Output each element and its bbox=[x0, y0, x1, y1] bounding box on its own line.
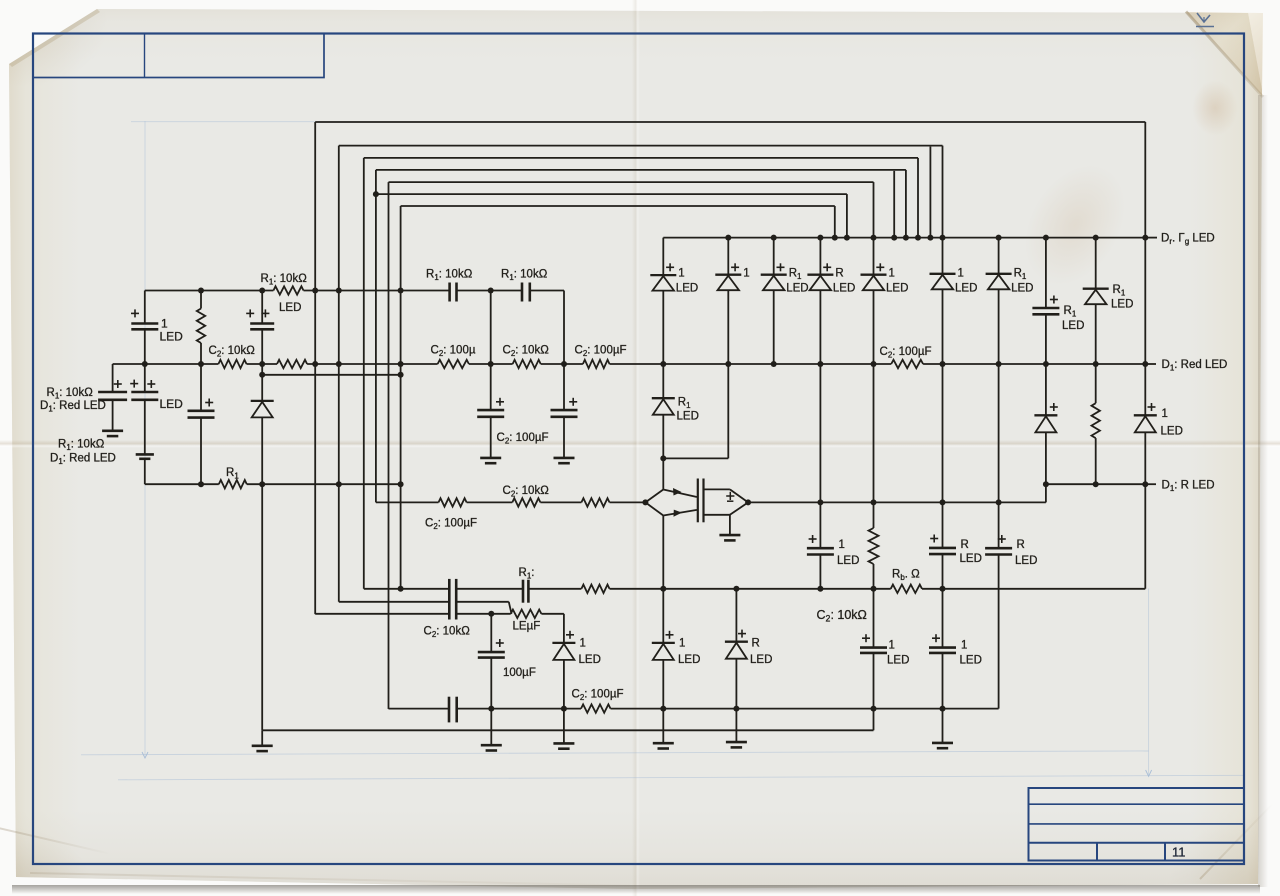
svg-text:R1: 10kΩ: R1: 10kΩ bbox=[58, 439, 105, 453]
node bus-column 663 (bus corner) bbox=[662, 237, 664, 239]
label LED (cap cluster) bbox=[160, 397, 184, 411]
wire column RR (row2 to diode) bbox=[1144, 364, 1146, 415]
ground (col 491 lower) bbox=[481, 745, 502, 750]
node column 1096 / row484 bbox=[1093, 481, 1099, 487]
wire column 1096 (diode to row2) bbox=[1095, 304, 1097, 364]
ground (column D) bbox=[252, 746, 273, 751]
wire column 1046 (bus to cap) bbox=[1045, 238, 1047, 308]
node column 728 / row2 bbox=[725, 361, 731, 367]
node column D / row4 bbox=[259, 481, 265, 487]
resistor R1 (row4) bbox=[219, 480, 247, 488]
capacitor R1 10k (row1 mid2) bbox=[522, 283, 530, 302]
node bus / column 998 bbox=[996, 235, 1002, 241]
wire row708 left bbox=[389, 708, 450, 710]
wire column D (row1 to cap) bbox=[261, 291, 263, 324]
label C2: 100uF (row2 right) bbox=[880, 346, 932, 360]
wire loop2 top horizontal bbox=[364, 157, 918, 159]
wire row2 mid to col663 bbox=[610, 363, 664, 365]
construction guide vertical left bbox=[144, 121, 146, 755]
label C2: 10k (right block) bbox=[817, 608, 867, 624]
wire row y3 left bbox=[315, 613, 449, 615]
node bus / c bbox=[871, 235, 877, 241]
resistor C2 100uF (row708) bbox=[581, 704, 611, 712]
ground (col 663 lower) bbox=[653, 743, 674, 748]
svg-text:LED: LED bbox=[160, 397, 184, 411]
wire column 663 (bus to diode) bbox=[662, 238, 664, 276]
wire column h (row2 to row5) bbox=[942, 364, 944, 502]
label C2: 100uF (row708) bbox=[572, 689, 624, 703]
wire row5 output segment bbox=[748, 501, 999, 503]
construction guide horizontal lower2 bbox=[118, 775, 1244, 780]
node column RR / row484 bbox=[1142, 481, 1148, 487]
wire row5 to opamp input bbox=[610, 501, 646, 503]
label D1: R LED (row484 end) bbox=[1162, 480, 1215, 494]
label 1 (cap 1 LED) bbox=[161, 317, 168, 331]
wire column D (row2b to diode) bbox=[261, 375, 263, 401]
plus/labels cap col942 upper bbox=[930, 535, 982, 566]
svg-text:LED: LED bbox=[837, 555, 859, 567]
wire row2 label stub bbox=[1145, 363, 1156, 365]
svg-text:Dr. Γg LED: Dr. Γg LED bbox=[1161, 233, 1215, 247]
node column C / row4 bbox=[198, 481, 204, 487]
resistor C2 10k (row2 mid2) bbox=[513, 360, 541, 368]
wire row2 right segment bbox=[663, 363, 891, 365]
capacitor 1 LED (column B upper) bbox=[131, 324, 158, 330]
svg-text:1: 1 bbox=[743, 268, 749, 280]
wire column 998 (row5 to cap) bbox=[998, 502, 1000, 548]
label D1: Red LED (lower left) bbox=[50, 453, 116, 467]
wire column 820 (bus to diode) bbox=[819, 238, 821, 275]
svg-text:R: R bbox=[1017, 539, 1025, 551]
label LED (row1 resistor) bbox=[279, 302, 301, 314]
svg-text:Rb. Ω: Rb. Ω bbox=[892, 569, 920, 583]
op-amp U1 plus-minus mark bbox=[726, 492, 734, 501]
wire col564 lower (diode to row708) bbox=[563, 660, 565, 709]
svg-text:R1: R1 bbox=[1014, 268, 1027, 282]
node row y1 / col663 bbox=[660, 586, 666, 592]
node bus / column 1096 bbox=[1093, 235, 1099, 241]
wire column 663 (node458 to opamp upper) bbox=[662, 458, 664, 489]
wire col736 (row708 to ground) bbox=[735, 709, 737, 743]
node L5 end on row y1 bbox=[398, 586, 404, 592]
resistor C2 100uF (row5 r1) bbox=[439, 498, 467, 506]
wire row y3 mid bbox=[456, 613, 511, 615]
wire column h (diode to row2) bbox=[942, 289, 944, 364]
plus/labels cap col873 lower bbox=[862, 634, 909, 666]
svg-text:LED: LED bbox=[833, 283, 855, 295]
wire column 663 (diode to row2) bbox=[662, 291, 664, 364]
wire loop5 left vertical bbox=[400, 206, 402, 589]
svg-text:100µF: 100µF bbox=[503, 667, 536, 679]
wire column RR (bus to row2) bbox=[1144, 238, 1146, 364]
wire col490 row1-row2 vertical bbox=[490, 291, 492, 365]
wire loop0 left vertical bbox=[314, 122, 316, 614]
wire column c (bus to diode) bbox=[873, 238, 875, 275]
label C2: 10k (row2 mid2) bbox=[503, 345, 550, 359]
diode R1 LED (col 998) bbox=[986, 268, 1034, 295]
wire row708 mid2 bbox=[611, 708, 943, 710]
svg-text:D1: Red LED: D1: Red LED bbox=[40, 400, 106, 414]
node column 820 / row2 bbox=[817, 361, 823, 367]
resistor C2 100uF (row2 right) bbox=[891, 360, 923, 368]
plus/labels cap col998 bbox=[998, 535, 1038, 567]
wire column 998 (bus to diode) bbox=[998, 238, 1000, 274]
wire row2 right segment2 bbox=[923, 363, 1145, 365]
ground (column 942) bbox=[932, 743, 953, 748]
sheet number 11 bbox=[1172, 845, 1186, 860]
svg-text:C2: 10kΩ: C2: 10kΩ bbox=[503, 485, 550, 499]
plus mark (cap 1 LED) bbox=[131, 309, 139, 317]
resistor (row y1) bbox=[581, 585, 609, 593]
svg-text:C2: 10kΩ: C2: 10kΩ bbox=[503, 345, 550, 359]
wire column 728 (diode to row2) bbox=[727, 290, 729, 364]
wire row708 mid bbox=[457, 708, 581, 710]
node bus / column 773 bbox=[771, 235, 777, 241]
node column C / row1 bbox=[198, 288, 204, 294]
wire row y2 bend to resistor bbox=[509, 602, 512, 614]
wire row708 right segment to corner bbox=[943, 708, 999, 710]
title block bottom-right bbox=[1029, 788, 1245, 861]
wire top bus D-net bbox=[663, 237, 1145, 239]
node column D / row2 bbox=[259, 361, 265, 367]
wire bus drop a bbox=[834, 206, 836, 238]
wire column RR (row484 to row y1 corner) bbox=[1144, 484, 1146, 589]
svg-text:R1: 10kΩ: R1: 10kΩ bbox=[47, 387, 94, 401]
node row1 / L0 bbox=[312, 288, 318, 294]
resistor C2 100uF (row2 mid3) bbox=[583, 360, 610, 368]
wire row484 right bbox=[1046, 483, 1145, 485]
wire column C (row2 to cap) bbox=[200, 364, 202, 411]
wire row y1 mid3 bbox=[610, 588, 664, 590]
wire col663 lower (row y1 to diode) bbox=[662, 589, 664, 643]
resistor C2 100u (row2 mid1) bbox=[438, 360, 469, 368]
wire row y3 to corner bbox=[541, 613, 564, 615]
plus marks (column D cap) bbox=[246, 309, 269, 317]
svg-text:1: 1 bbox=[1162, 408, 1168, 420]
plus marks (three, cap cluster) bbox=[114, 380, 156, 388]
wire y458 horizontal to column 728 bbox=[663, 457, 728, 459]
wire column 820 (row5 to cap) bbox=[819, 502, 821, 548]
node column 1096 / row2 bbox=[1093, 361, 1099, 367]
node column D / row2b bbox=[259, 372, 265, 378]
wire column c (cap to row708) bbox=[873, 653, 875, 709]
capacitor R1 10k (row1 mid1) bbox=[450, 283, 457, 302]
wire column C (cap to row4) bbox=[200, 418, 202, 485]
label LED (cap 1 LED) bbox=[160, 330, 184, 344]
node row4 / L1 bbox=[336, 481, 342, 487]
plus mark (col564 cap) bbox=[569, 398, 577, 406]
node column 1046 / row484 bbox=[1043, 481, 1049, 487]
svg-text:R1: 10kΩ: R1: 10kΩ bbox=[261, 273, 308, 287]
capacitor R LED (col 998) bbox=[985, 548, 1012, 554]
svg-text:LED: LED bbox=[960, 655, 982, 667]
node row708 / col736 bbox=[733, 706, 739, 712]
svg-text:1: 1 bbox=[889, 640, 895, 652]
node row708 / col564 bbox=[561, 706, 567, 712]
wire column h (row y1 to cap2) bbox=[942, 589, 944, 648]
wire column 728 (row2 to corner458) bbox=[727, 364, 729, 458]
wire loop1 top horizontal bbox=[339, 145, 943, 147]
node row1 / L5 bbox=[398, 288, 404, 294]
wire bottom bus bbox=[262, 729, 873, 731]
wire column 1046 (row484 to corner 502) bbox=[1045, 484, 1047, 502]
plus/labels cap col942 lower bbox=[932, 634, 982, 666]
label C2: 10k (row5 r2) bbox=[503, 485, 550, 499]
svg-text:LED: LED bbox=[1161, 426, 1183, 438]
wire col564 row2 to cap bbox=[563, 364, 565, 410]
svg-text:R: R bbox=[835, 268, 843, 280]
diode R1 LED (col 1096) bbox=[1083, 284, 1134, 311]
wire row y1 right a bbox=[663, 588, 890, 590]
wire top bus label stub bbox=[1145, 237, 1157, 239]
wire row y1 mid bbox=[456, 588, 523, 590]
node column c / row2 bbox=[871, 361, 877, 367]
capacitor (col 564) bbox=[551, 410, 578, 417]
wire op-amp ground stem bbox=[729, 515, 731, 535]
diode R1 LED (col 663 mid) bbox=[652, 398, 675, 415]
label C2: 10k (tall cap) bbox=[424, 626, 471, 640]
wire column B (cap to battery) bbox=[144, 400, 146, 455]
svg-text:LED: LED bbox=[1015, 555, 1037, 567]
node bus / e bbox=[903, 235, 909, 241]
resistor C2 10k (row5 r2) bbox=[512, 498, 540, 506]
wire column D (bus corner to ground) bbox=[261, 730, 263, 746]
label C2: 100uF (row5 r1) bbox=[425, 518, 477, 532]
node column h / row5 bbox=[940, 499, 946, 505]
wire column h (cap2 to row708) bbox=[942, 653, 944, 709]
wire row5 link2 bbox=[540, 501, 581, 503]
node row2 / col564 bbox=[561, 361, 567, 367]
wire column D (cap to row2) bbox=[261, 329, 263, 364]
node row1 / L1 bbox=[336, 288, 342, 294]
wire col663 lower (opamp to row y1) bbox=[662, 516, 664, 589]
node column c / row5 bbox=[871, 499, 877, 505]
ground (col 564) bbox=[554, 458, 575, 463]
wire row4 left segment a bbox=[145, 483, 219, 485]
label R1: 10k (row1 mid1) bbox=[426, 269, 473, 283]
resistor (vertical, column c) bbox=[869, 528, 879, 564]
wire column 820 (cap to row y1) bbox=[819, 555, 821, 589]
wire col564 cap to ground bbox=[563, 417, 565, 458]
svg-text:1: 1 bbox=[580, 638, 586, 650]
op-amp U1 input diagonals bbox=[645, 490, 663, 516]
wire row2 main left a bbox=[145, 363, 219, 365]
wire loop3 top horizontal bbox=[376, 169, 906, 171]
capacitor 1 LED (col 942 lower) bbox=[929, 648, 956, 653]
wire loop1 left vertical bbox=[338, 146, 340, 602]
svg-text:1: 1 bbox=[961, 640, 967, 652]
node bus / d bbox=[891, 235, 897, 241]
ground (column A) bbox=[102, 431, 123, 436]
svg-text:LED: LED bbox=[750, 654, 772, 666]
node row708 / col491 bbox=[488, 706, 494, 712]
svg-text:C2: 10kΩ: C2: 10kΩ bbox=[817, 608, 867, 624]
svg-text:R1: 10kΩ: R1: 10kΩ bbox=[426, 269, 473, 283]
wire bus drop b bbox=[846, 194, 848, 238]
svg-text:LED: LED bbox=[676, 283, 698, 295]
svg-text:1: 1 bbox=[161, 317, 168, 331]
wire row2b bbox=[262, 374, 400, 376]
node column 820 / row y1 bbox=[817, 586, 823, 592]
svg-text:C2: 100µ: C2: 100µ bbox=[431, 345, 476, 359]
wire col736 (diode to row708) bbox=[735, 659, 737, 709]
wire row5 link 998-1046 bbox=[999, 501, 1046, 503]
wire column 820 (row2 to row5) bbox=[819, 364, 821, 502]
node column B / row2 bbox=[142, 361, 148, 367]
svg-text:1: 1 bbox=[678, 268, 684, 280]
capacitor (column C) bbox=[188, 411, 215, 418]
wire column h (row708 to ground) bbox=[942, 709, 944, 743]
svg-text:LED: LED bbox=[1011, 283, 1033, 295]
svg-text:R: R bbox=[752, 638, 760, 650]
capacitor R1 LED (col 1046) bbox=[1032, 308, 1059, 314]
diode (+, col 1046) bbox=[1034, 403, 1057, 432]
label R1: (row y1 cap) bbox=[519, 567, 535, 581]
diode LED (+1, col 728) bbox=[715, 263, 749, 290]
wire row y1 left bbox=[364, 588, 450, 590]
label D1: Red LED (upper left) bbox=[40, 400, 106, 414]
label LEuF (row y3) bbox=[513, 621, 541, 633]
wire column 728 (bus to diode) bbox=[727, 238, 729, 275]
wire row1 left segment bbox=[145, 290, 274, 292]
wire row2 main left b bbox=[247, 363, 278, 365]
node bus / a bbox=[832, 235, 838, 241]
wire row708 left corner vertical bbox=[388, 708, 390, 710]
wire loop3 left vertical bbox=[375, 170, 377, 503]
node row2 / L1 bbox=[336, 361, 342, 367]
wire column 1096 (bus to diode) bbox=[1095, 238, 1097, 289]
capacitor 1 LED (col 820) bbox=[807, 548, 834, 554]
svg-text:1: 1 bbox=[839, 539, 845, 551]
wire column C (row1 to resistor) bbox=[200, 291, 202, 309]
svg-text:LEµF: LEµF bbox=[513, 621, 541, 633]
resistor C2 10k (vertical, column C) bbox=[197, 309, 205, 344]
capacitor R1: (row y1) bbox=[523, 580, 528, 603]
label D1: Red LED (row2 end) bbox=[1162, 359, 1228, 373]
wire col564 row1 corner vertical bbox=[563, 291, 565, 365]
svg-text:LED: LED bbox=[887, 655, 909, 667]
battery cell (column B) bbox=[136, 454, 154, 458]
capacitor (column D) bbox=[250, 324, 274, 330]
svg-text:D1: Red LED: D1: Red LED bbox=[1162, 359, 1228, 373]
node column 663 / y458 bbox=[660, 455, 666, 461]
svg-text:LED: LED bbox=[579, 654, 601, 666]
wire column 663 (diode2 to node458) bbox=[662, 415, 664, 459]
capacitor 1 LED (col 873 lower) bbox=[860, 648, 887, 653]
wire column B (row2 to cap) bbox=[144, 364, 146, 392]
node column 998 / row5 bbox=[996, 499, 1002, 505]
diode R1 LED (col 773) bbox=[761, 263, 809, 294]
diode +R LED (col 736) bbox=[725, 630, 772, 666]
wire bus drop f bbox=[917, 158, 919, 238]
svg-text:R1:: R1: bbox=[519, 567, 535, 581]
wire column B (battery to row4 corner) bbox=[144, 459, 146, 484]
diode (column D) bbox=[251, 401, 274, 418]
svg-text:R1: R1 bbox=[1113, 284, 1126, 298]
label R1: 10k (row1) bbox=[261, 273, 308, 287]
ground (col 564 lower) bbox=[553, 743, 574, 748]
node row2 / L0 bbox=[312, 361, 318, 367]
wire column h (cap to row y1) bbox=[942, 554, 944, 589]
svg-text:LED: LED bbox=[960, 553, 982, 565]
label R1 LED (col 663 mid diode) bbox=[677, 397, 699, 423]
node column D / row1 bbox=[259, 288, 265, 294]
wire bus drop d bbox=[893, 171, 895, 238]
wire bus drop c (column) bbox=[873, 182, 875, 238]
svg-text:LED: LED bbox=[678, 654, 700, 666]
wire row2 leftmost stub bbox=[113, 363, 145, 365]
wire column c (row2 to row5) bbox=[873, 364, 875, 502]
wire row2 mid link2 bbox=[541, 363, 583, 365]
wire col491 (row y3 to cap) bbox=[490, 614, 492, 652]
wire col564 lower (corner to diode) bbox=[563, 614, 565, 643]
node column h / row2 bbox=[940, 361, 946, 367]
node bus / column 1046 bbox=[1043, 235, 1049, 241]
wire loop5 top horizontal bbox=[401, 205, 835, 207]
wire column c (row y1 to cap) bbox=[873, 589, 875, 648]
ground (op-amp) bbox=[719, 535, 740, 540]
svg-text:C2: 100µF: C2: 100µF bbox=[572, 689, 624, 703]
wire row484 label stub bbox=[1145, 483, 1156, 485]
svg-text:R1: 10kΩ: R1: 10kΩ bbox=[501, 269, 548, 283]
wire col663 lower (diode to row708) bbox=[662, 660, 664, 709]
wire column 1046 (diode to row484) bbox=[1045, 432, 1047, 484]
diode R LED (col 820) bbox=[807, 263, 855, 294]
node bus / f bbox=[915, 235, 921, 241]
wire bus drop g bbox=[929, 147, 931, 238]
node row2 / col490 bbox=[488, 361, 494, 367]
svg-text:R1: R1 bbox=[789, 268, 802, 282]
wire row1 segment b bbox=[304, 290, 450, 292]
wire column A (row2 down to cap) bbox=[112, 364, 114, 392]
svg-text:C2: 100µF: C2: 100µF bbox=[880, 346, 932, 360]
wire column 998 (diode to row2) bbox=[998, 289, 1000, 364]
svg-text:C2: 10kΩ: C2: 10kΩ bbox=[424, 626, 471, 640]
resistor LEuF (row y3) bbox=[511, 610, 542, 618]
resistor (row2 second) bbox=[277, 360, 307, 368]
capacitor 100uF (col 491) bbox=[478, 652, 505, 658]
wire column B upper (row1 to cap) bbox=[144, 291, 146, 324]
wire column D (row2 to row2b) bbox=[261, 364, 263, 375]
node column c / row708 bbox=[871, 706, 877, 712]
node column 773 / row2 bbox=[771, 361, 777, 367]
label 100uF (col491 cap) bbox=[503, 667, 536, 679]
svg-text:LED: LED bbox=[1111, 299, 1133, 311]
svg-text:D1: Red LED: D1: Red LED bbox=[50, 453, 116, 467]
node row2b end / L5 bbox=[398, 372, 404, 378]
plus/labels cap col820 bbox=[809, 535, 860, 567]
wire outer loop right vertical bbox=[1144, 122, 1146, 238]
svg-text:R1: R1 bbox=[678, 397, 691, 411]
svg-text:LED: LED bbox=[786, 283, 808, 295]
wire row2 mid link1 bbox=[469, 363, 513, 365]
wire column c (diode to row2) bbox=[873, 290, 875, 364]
wire column C (resistor to row2) bbox=[200, 343, 202, 364]
wire col663 lower (row708 to ground) bbox=[662, 709, 664, 744]
label C2: 100u (row2 mid1) bbox=[431, 345, 476, 359]
wire column c (resistor to row y1) bbox=[873, 564, 875, 589]
node column h / row708 bbox=[940, 706, 946, 712]
wire column 998 (cap to corner 708) bbox=[998, 555, 1000, 709]
wire row y2 mid bbox=[456, 601, 509, 603]
node loop5-branch on L3 bbox=[373, 191, 379, 197]
construction guide horizontal lower1 bbox=[81, 751, 1149, 758]
svg-text:LED: LED bbox=[1062, 320, 1084, 332]
blue check mark top right bbox=[1196, 13, 1214, 27]
label R1 (row4) bbox=[226, 467, 239, 481]
wire column 820 (diode to row2) bbox=[819, 290, 821, 364]
wire row5 link1 bbox=[467, 501, 513, 503]
